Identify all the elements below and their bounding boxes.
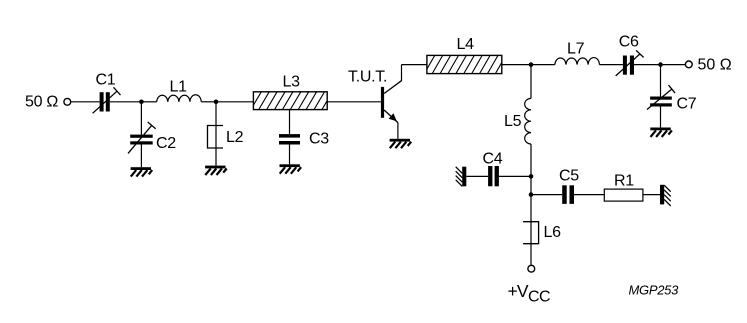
- inductor L6 (box): [523, 222, 539, 244]
- wire L3 down to C3: [289, 110, 291, 135]
- svg-text:C6: C6: [619, 34, 639, 51]
- wall ground right of R1: [660, 185, 671, 206]
- node A: [139, 100, 144, 105]
- capacitor C1 (variable): [93, 87, 121, 113]
- capacitor C7 (variable): [647, 85, 675, 109]
- wire L7 to C6: [599, 64, 623, 66]
- node B: [214, 100, 219, 105]
- wire emitter to ground: [397, 123, 399, 139]
- svg-text:L3: L3: [283, 74, 301, 91]
- wire node D down to C7: [660, 65, 662, 97]
- input terminal: [64, 98, 71, 105]
- ground under L2: [205, 166, 227, 175]
- label L7: [567, 41, 585, 58]
- ground under emitter: [390, 139, 412, 148]
- label C3: [309, 131, 329, 148]
- label L6: [544, 224, 562, 241]
- wire L6 to Vcc terminal: [530, 244, 532, 266]
- wire C7 to ground: [660, 107, 662, 128]
- svg-text:L7: L7: [567, 41, 585, 58]
- label 50 ohm input: [25, 94, 58, 111]
- capacitor C5: [562, 185, 574, 204]
- label L4: [457, 36, 475, 53]
- label 50 ohm output: [698, 57, 732, 74]
- wall ground left of C4: [456, 167, 467, 187]
- capacitor C3: [279, 134, 300, 144]
- wire C5 to R1: [574, 194, 604, 196]
- svg-text:C2: C2: [156, 135, 176, 152]
- wire node C to L7: [531, 64, 555, 66]
- wire C6 to node D: [634, 64, 661, 66]
- wire node B to L3: [216, 101, 253, 103]
- svg-text:R1: R1: [614, 173, 634, 190]
- capacitor C4: [488, 166, 499, 186]
- svg-text:50 Ω: 50 Ω: [698, 57, 732, 74]
- resistor R1: [604, 189, 643, 201]
- wire L5 to node E: [530, 144, 532, 176]
- output terminal: [685, 61, 692, 68]
- wire input to C1: [71, 101, 100, 103]
- capacitor C2 (variable): [128, 122, 156, 153]
- wire node F down to L6: [530, 195, 532, 222]
- label L1: [170, 79, 188, 96]
- svg-text:MGP253: MGP253: [629, 283, 680, 298]
- label MGP253: [629, 283, 680, 298]
- transistor T.U.T.: [381, 65, 402, 123]
- svg-text:+V: +V: [508, 281, 529, 301]
- wire collector to L4: [402, 64, 427, 66]
- wire node E to node F: [530, 176, 532, 194]
- svg-text:CC: CC: [528, 288, 550, 305]
- svg-text:C5: C5: [559, 168, 579, 185]
- label L5: [504, 113, 522, 130]
- label C1: [96, 71, 116, 88]
- stripline L4 (hatched box): [416, 55, 506, 73]
- ground under C3: [280, 164, 302, 173]
- wire node B down to L2: [215, 102, 217, 126]
- wire node F to C5: [531, 194, 562, 196]
- node F: [529, 192, 534, 197]
- inductor L5 (vertical): [525, 98, 531, 144]
- wire L1 to node B: [201, 101, 216, 103]
- wire C1 to node A: [110, 101, 142, 103]
- label R1: [614, 173, 634, 190]
- svg-text:L6: L6: [544, 224, 562, 241]
- wire L2 to ground: [215, 148, 217, 166]
- node E: [529, 174, 534, 179]
- label C2: [156, 135, 176, 152]
- ground under C2: [131, 167, 153, 176]
- wire R1 to wall ground: [643, 194, 660, 196]
- wire wall to C4: [466, 175, 488, 177]
- inductor L2 (box): [208, 126, 224, 149]
- wire C2 to ground: [140, 145, 142, 168]
- svg-text:L2: L2: [226, 129, 244, 146]
- node C: [529, 62, 534, 67]
- label L3: [283, 74, 301, 91]
- svg-text:C3: C3: [309, 131, 329, 148]
- node D: [658, 62, 663, 67]
- svg-text:50 Ω: 50 Ω: [25, 94, 58, 111]
- label C6: [619, 34, 639, 51]
- svg-text:C1: C1: [96, 71, 116, 88]
- wire C4 to node E: [499, 175, 531, 177]
- capacitor C6 (variable): [616, 50, 644, 76]
- wire node A to L1: [141, 101, 156, 103]
- label L2: [226, 129, 244, 146]
- svg-text:L5: L5: [504, 113, 522, 130]
- wire L4 to node C: [502, 64, 531, 66]
- svg-text:L4: L4: [457, 36, 475, 53]
- ground under C7: [650, 128, 672, 137]
- wire node C down to L5: [530, 65, 532, 99]
- Vcc terminal: [528, 265, 535, 272]
- label C7: [677, 96, 697, 113]
- inductor L1: [157, 95, 202, 102]
- wire node A down to C2: [140, 102, 142, 135]
- svg-text:L1: L1: [170, 79, 188, 96]
- wire node D to output terminal: [661, 64, 686, 66]
- label T.U.T.: [348, 68, 387, 85]
- svg-text:T.U.T.: T.U.T.: [348, 68, 387, 85]
- wire C3 to ground: [289, 145, 291, 165]
- label C5: [559, 168, 579, 185]
- label C4: [483, 151, 503, 168]
- label +Vcc: [508, 281, 550, 305]
- svg-text:C7: C7: [677, 96, 697, 113]
- svg-text:C4: C4: [483, 151, 503, 168]
- stripline L3 (hatched box): [243, 92, 333, 110]
- inductor L7: [555, 58, 600, 65]
- wire L3 to base: [327, 101, 381, 103]
